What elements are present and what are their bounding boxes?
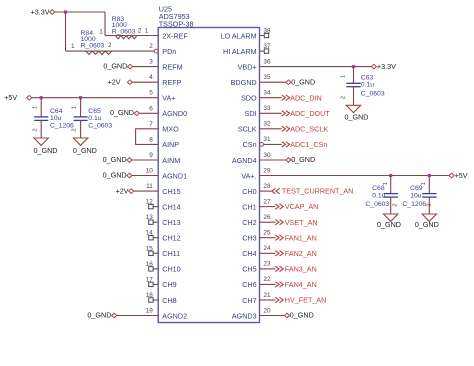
svg-text:CH14: CH14	[162, 202, 180, 211]
svg-text:32: 32	[263, 121, 271, 128]
svg-text:R_0603: R_0603	[112, 29, 136, 36]
svg-text:2: 2	[32, 128, 38, 131]
ground symbol under C63	[346, 105, 360, 112]
capacitor C63 0.1u C_0603	[353, 67, 355, 84]
svg-text:35: 35	[263, 74, 271, 81]
wire pin 10	[132, 175, 158, 177]
port chevrons VCAP_AN	[275, 204, 283, 209]
wire pin 26	[260, 221, 276, 223]
capacitor C68 0.1u C_0603	[390, 176, 392, 194]
ground symbol under C65	[73, 138, 87, 145]
svg-text:6: 6	[149, 105, 153, 112]
wire pin 24	[260, 252, 276, 254]
svg-text:11: 11	[146, 183, 153, 190]
off-page connector 0_GND pin 20	[285, 313, 290, 318]
junction C68 tap	[389, 174, 392, 177]
svg-text:LO ALARM: LO ALARM	[221, 31, 257, 40]
svg-text:CH2: CH2	[242, 218, 256, 227]
svg-text:AGND3: AGND3	[232, 311, 257, 320]
svg-text:CH4: CH4	[242, 249, 256, 258]
svg-text:CH13: CH13	[162, 218, 180, 227]
wire pin 9	[132, 159, 158, 161]
svg-text:0_GND: 0_GND	[103, 155, 127, 164]
port chevrons ADC1_CSn	[282, 142, 290, 147]
svg-text:29: 29	[263, 167, 271, 174]
ground symbol under C69	[422, 214, 436, 221]
wire pin 4	[132, 81, 158, 83]
svg-text:VBD+: VBD+	[238, 62, 257, 71]
wire stub pin 18	[153, 299, 158, 301]
off-page connector 0_GND pin 3	[128, 64, 133, 69]
svg-text:VA+: VA+	[162, 94, 175, 103]
wire stub pin 13	[153, 221, 158, 223]
svg-text:CH11: CH11	[162, 249, 180, 258]
svg-text:1: 1	[71, 43, 75, 50]
no-connect square pin 16	[149, 267, 153, 271]
svg-text:31: 31	[263, 136, 271, 143]
svg-text:0.1u: 0.1u	[88, 115, 101, 122]
off-page connector 0_GND pin 9	[127, 158, 132, 163]
svg-text:VA+.: VA+.	[241, 171, 256, 180]
svg-text:0_GND: 0_GND	[377, 220, 401, 229]
svg-text:23: 23	[263, 261, 271, 268]
junction C65 tap	[79, 96, 82, 99]
svg-text:SCLK: SCLK	[238, 125, 257, 134]
svg-text:AINM: AINM	[162, 156, 180, 165]
inversion bubble on CSn pin 31	[260, 143, 264, 147]
svg-text:24: 24	[263, 245, 271, 252]
ground symbol under C68	[384, 214, 398, 221]
svg-text:1: 1	[340, 75, 346, 78]
svg-text:22: 22	[263, 276, 271, 283]
wire stub pin 37	[260, 50, 265, 52]
svg-text:0_GND: 0_GND	[345, 112, 369, 121]
svg-text:C_0603: C_0603	[361, 90, 385, 97]
svg-text:FAN1_AN: FAN1_AN	[285, 233, 317, 242]
wire pin 32	[260, 128, 282, 130]
svg-text:FAN2_AN: FAN2_AN	[285, 249, 317, 258]
wire pin 35	[260, 81, 286, 83]
svg-text:19: 19	[146, 308, 154, 315]
wire pin 22	[260, 283, 276, 285]
svg-text:33: 33	[263, 105, 271, 112]
svg-text:8: 8	[149, 136, 153, 143]
svg-text:CH5: CH5	[242, 265, 256, 274]
no-connect square pin 38	[264, 33, 268, 37]
wire stub pin 38	[260, 35, 265, 37]
svg-text:FAN4_AN: FAN4_AN	[285, 280, 317, 289]
svg-text:VSET_AN: VSET_AN	[285, 218, 318, 227]
svg-text:9: 9	[149, 152, 153, 159]
svg-text:34: 34	[263, 90, 271, 97]
svg-text:1: 1	[72, 106, 78, 109]
port chevrons FAN4_AN	[275, 282, 283, 287]
svg-text:C_1206: C_1206	[402, 201, 426, 208]
off-page connector 0_GND pin 6	[134, 111, 139, 116]
svg-text:HI ALARM: HI ALARM	[223, 47, 257, 56]
wire +3.3V rail horizontal	[55, 11, 105, 13]
svg-text:30: 30	[263, 152, 271, 159]
svg-text:CH1: CH1	[242, 202, 256, 211]
no-connect square pin 17	[149, 282, 153, 286]
svg-text:CH10: CH10	[162, 265, 180, 274]
capacitor C65 0.1u C_0603	[80, 98, 82, 117]
svg-text:R_0603: R_0603	[81, 43, 105, 50]
wire pin 19	[117, 315, 159, 317]
off-page connector 0_GND pin 10	[127, 173, 132, 178]
svg-text:0_GND: 0_GND	[110, 108, 134, 117]
resistor R83 1000 R_0603	[105, 35, 158, 37]
power symbol +5V terminal pin 29	[449, 173, 454, 178]
svg-text:MXO: MXO	[162, 125, 179, 134]
inversion bubble on PDn pin 2	[154, 49, 158, 53]
svg-text:+2V: +2V	[108, 77, 121, 86]
svg-text:ADC_DIN: ADC_DIN	[290, 93, 322, 102]
svg-text:28: 28	[263, 183, 271, 190]
svg-text:TEST_CURRENT_AN: TEST_CURRENT_AN	[282, 187, 354, 196]
port chevrons FAN1_AN	[275, 235, 283, 240]
port chevrons FAN2_AN	[275, 251, 283, 256]
wire pin 33	[260, 112, 282, 114]
wire pin 31	[264, 143, 282, 145]
svg-text:21: 21	[263, 292, 271, 299]
svg-text:+3.3V: +3.3V	[31, 7, 50, 16]
wire stub pin 16	[153, 268, 158, 270]
svg-text:2: 2	[340, 96, 346, 99]
power symbol +3.3V terminal pin 36	[371, 64, 376, 69]
svg-text:0_GND: 0_GND	[34, 146, 58, 155]
svg-text:0_GND: 0_GND	[291, 77, 315, 86]
svg-text:+5V: +5V	[455, 171, 468, 180]
wire pin 34	[260, 97, 282, 99]
wire pin 6	[139, 112, 158, 114]
port chevrons VSET_AN	[275, 220, 283, 225]
no-connect square pin 14	[149, 236, 153, 240]
svg-text:2: 2	[393, 203, 399, 206]
capacitor C69 10u C_1206	[428, 176, 430, 194]
svg-text:CH12: CH12	[162, 234, 180, 243]
svg-text:AGND2: AGND2	[162, 311, 187, 320]
svg-text:CH8: CH8	[162, 296, 176, 305]
junction C64 tap	[40, 96, 43, 99]
svg-text:VCAP_AN: VCAP_AN	[285, 202, 319, 211]
svg-text:CH3: CH3	[242, 234, 256, 243]
svg-text:3: 3	[149, 59, 153, 66]
svg-text:1: 1	[383, 182, 389, 185]
svg-text:C_1206: C_1206	[50, 123, 74, 130]
svg-text:2: 2	[108, 42, 112, 49]
wire +5V rail to pin 5	[32, 97, 159, 99]
off-page connector 0_GND pin 35	[286, 80, 291, 85]
svg-text:26: 26	[263, 214, 271, 221]
svg-text:10u: 10u	[50, 115, 62, 122]
wire pin 20	[260, 315, 285, 317]
svg-text:CH15: CH15	[162, 187, 180, 196]
power symbol +2V terminal pin 11	[129, 189, 134, 194]
port chevrons FAN3_AN	[275, 266, 283, 271]
wire stub pin 17	[153, 283, 158, 285]
svg-text:0_GND: 0_GND	[415, 220, 439, 229]
svg-text:+3.3V: +3.3V	[377, 62, 396, 71]
power symbol +5V terminal	[27, 95, 32, 100]
port chevrons ADC_SCLK	[282, 126, 290, 131]
wire stub pin 15	[153, 252, 158, 254]
svg-text:0_GND: 0_GND	[87, 311, 111, 320]
svg-text:2X-REF: 2X-REF	[162, 31, 188, 40]
svg-text:CSn: CSn	[243, 140, 257, 149]
svg-text:HV_FET_AN: HV_FET_AN	[285, 296, 327, 305]
svg-text:1: 1	[99, 28, 103, 35]
wire pin 29 VA+ to +5V rail	[260, 175, 450, 177]
svg-text:0_GND: 0_GND	[103, 62, 127, 71]
svg-text:AGND0: AGND0	[162, 109, 187, 118]
svg-text:1: 1	[32, 106, 38, 109]
wire pin 3	[133, 66, 159, 68]
off-page connector 0_GND pin 30	[286, 158, 291, 163]
svg-text:0_GND: 0_GND	[291, 155, 315, 164]
resistor R84 1000 R_0603	[66, 50, 155, 52]
svg-text:27: 27	[263, 198, 271, 205]
svg-text:REFM: REFM	[162, 62, 182, 71]
wire pin 30	[260, 159, 286, 161]
wire loop joining MXO pin 7 and AINP pin 8	[136, 129, 159, 145]
ground symbol under C64	[34, 138, 48, 145]
junction C63 tap	[352, 65, 355, 68]
wire pin 36 VBD+ to +3.3V	[260, 66, 372, 68]
svg-text:ADC1_CSn: ADC1_CSn	[290, 140, 327, 149]
svg-text:AGND1: AGND1	[162, 171, 187, 180]
wire pin 27	[260, 206, 276, 208]
svg-text:10: 10	[146, 168, 154, 175]
svg-text:AINP: AINP	[162, 140, 179, 149]
wire stub pin 14	[153, 237, 158, 239]
svg-text:1: 1	[145, 28, 149, 35]
svg-text:2: 2	[138, 28, 142, 35]
power symbol +3.3V terminal	[50, 10, 55, 15]
no-connect square pin 12	[149, 204, 153, 208]
no-connect square pin 18	[149, 298, 153, 302]
svg-text:FAN3_AN: FAN3_AN	[285, 265, 317, 274]
power symbol +2V terminal pin 4	[127, 80, 132, 85]
junction node +3.3V split	[64, 10, 67, 13]
svg-text:AGND4: AGND4	[232, 156, 257, 165]
svg-text:4: 4	[149, 74, 153, 81]
svg-text:25: 25	[263, 230, 271, 237]
svg-text:C_0603: C_0603	[88, 123, 112, 130]
op-amp-style IC body U25 ADS7953	[158, 28, 259, 323]
svg-text:2: 2	[426, 203, 432, 206]
wire stub pin 12	[153, 206, 158, 208]
no-connect square pin 15	[149, 251, 153, 255]
svg-text:SDI: SDI	[245, 109, 257, 118]
svg-text:2: 2	[149, 43, 153, 50]
svg-text:ADC_DOUT: ADC_DOUT	[290, 109, 330, 118]
off-page connector 0_GND pin 19	[112, 313, 117, 318]
capacitor C64 10u C_1206	[40, 98, 42, 117]
port chevrons ADC_DIN	[282, 95, 290, 100]
svg-text:20: 20	[263, 307, 271, 314]
wire pin 21	[260, 299, 276, 301]
svg-text:5: 5	[149, 90, 153, 97]
svg-text:ADC_SCLK: ADC_SCLK	[290, 124, 328, 133]
svg-text:REFP: REFP	[162, 78, 181, 87]
junction C69 tap	[428, 174, 431, 177]
svg-text:CH0: CH0	[242, 187, 256, 196]
svg-text:0_GND: 0_GND	[73, 146, 97, 155]
svg-text:0_GND: 0_GND	[103, 171, 127, 180]
svg-text:C_0603: C_0603	[365, 201, 389, 208]
svg-text:7: 7	[149, 121, 153, 128]
port chevrons ADC_DOUT	[282, 111, 290, 116]
port chevrons TEST_CURRENT_AN	[272, 188, 280, 193]
svg-text:2: 2	[72, 128, 78, 131]
wire +3.3V down to R84	[65, 12, 67, 51]
no-connect square pin 37	[264, 49, 268, 53]
wire pin 28	[260, 190, 272, 192]
svg-text:36: 36	[263, 58, 271, 65]
svg-text:0.1u: 0.1u	[372, 193, 385, 200]
wire +3.3V down to R83	[104, 12, 106, 36]
wire pin 23	[260, 268, 276, 270]
svg-text:SDO: SDO	[241, 94, 257, 103]
svg-text:CH6: CH6	[242, 280, 256, 289]
svg-text:1: 1	[421, 182, 427, 185]
svg-text:TSSOP-38: TSSOP-38	[159, 20, 194, 29]
wire pin 25	[260, 237, 276, 239]
svg-text:10u: 10u	[410, 193, 422, 200]
svg-text:PDn: PDn	[162, 47, 176, 56]
svg-text:CH7: CH7	[242, 296, 256, 305]
svg-text:BDGND: BDGND	[231, 78, 257, 87]
no-connect square pin 13	[149, 220, 153, 224]
svg-text:0.1u: 0.1u	[361, 81, 374, 88]
wire pin 11	[134, 190, 159, 192]
svg-text:+5V: +5V	[4, 93, 17, 102]
svg-text:0_GND: 0_GND	[290, 311, 314, 320]
svg-text:CH9: CH9	[162, 280, 176, 289]
port chevrons HV_FET_AN	[275, 297, 283, 302]
svg-text:+2V: +2V	[116, 186, 129, 195]
